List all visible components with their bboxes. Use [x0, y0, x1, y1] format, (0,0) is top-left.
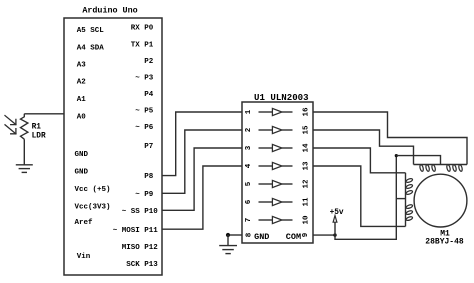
svg-text:28BYJ-48: 28BYJ-48 [425, 237, 464, 246]
motor coil B left half loops [419, 164, 424, 171]
svg-text:8: 8 [245, 232, 253, 237]
buffer channel 2 input wire [259, 129, 273, 131]
buffer channel 5 output wire [282, 183, 293, 185]
buffer channel 1 output wire [282, 111, 293, 113]
svg-text:Arduino Uno: Arduino Uno [82, 5, 137, 15]
svg-text:P7: P7 [144, 143, 153, 151]
wire +5v rail to coil B centre tap [396, 156, 440, 165]
buffer triangle 3 [272, 144, 282, 151]
svg-text:RX: RX [131, 25, 141, 33]
junction dot +5v tap [333, 233, 336, 236]
buffer channel 4 output wire [282, 165, 293, 167]
svg-text:R1: R1 [32, 123, 42, 131]
svg-text:3: 3 [245, 145, 253, 150]
motor coil A lower half loops [406, 204, 413, 209]
buffer triangle 1 [272, 108, 282, 115]
board A1 Arduino Uno box [64, 18, 162, 275]
svg-text:6: 6 [245, 199, 253, 204]
svg-text:GND: GND [254, 232, 269, 242]
svg-text:~: ~ [135, 124, 140, 132]
svg-text:~ MOSI: ~ MOSI [113, 227, 140, 235]
svg-text:A4 SDA: A4 SDA [77, 45, 105, 53]
svg-text:5: 5 [245, 181, 253, 186]
svg-text:9: 9 [302, 232, 310, 237]
buffer channel 1 input wire [259, 111, 273, 113]
buffer channel 7 output wire [282, 219, 293, 221]
svg-text:Vcc(3V3): Vcc(3V3) [75, 204, 111, 212]
svg-text:P11: P11 [144, 227, 158, 235]
svg-text:+5v: +5v [330, 209, 344, 217]
svg-text:TX: TX [131, 42, 141, 50]
buffer channel 6 input wire [259, 201, 273, 203]
junction dot at ground wire [226, 233, 230, 237]
buffer triangle 4 [272, 162, 282, 169]
svg-text:COM: COM [286, 232, 301, 242]
buffer channel 3 input wire [259, 147, 273, 149]
svg-text:15: 15 [302, 125, 310, 135]
svg-text:P12: P12 [144, 244, 158, 252]
svg-text:A1: A1 [77, 96, 87, 104]
svg-text:16: 16 [302, 107, 310, 117]
wire ULN pin 14 to motor coil A top end [313, 148, 406, 173]
svg-text:LDR: LDR [32, 133, 46, 141]
svg-text:~: ~ [135, 108, 140, 116]
wire up to +5v arrow [334, 222, 336, 235]
light arrow 2 into R1 [5, 125, 16, 134]
wire +5v rail to coil A centre tap [396, 198, 405, 200]
wire P11 to ULN pin 4 [162, 166, 242, 229]
svg-text:P5: P5 [144, 108, 154, 116]
svg-text:P1: P1 [144, 42, 154, 50]
buffer channel 4 input wire [259, 165, 273, 167]
svg-text:14: 14 [302, 143, 310, 153]
wire R1 to ground [23, 139, 25, 165]
svg-text:11: 11 [302, 197, 310, 207]
svg-text:GND: GND [75, 151, 89, 159]
svg-text:P13: P13 [144, 261, 158, 269]
svg-text:P9: P9 [144, 191, 154, 199]
svg-text:~ SS: ~ SS [122, 208, 141, 216]
svg-text:7: 7 [245, 218, 253, 223]
svg-text:~: ~ [135, 75, 140, 83]
svg-text:P8: P8 [144, 173, 154, 181]
svg-text:P10: P10 [144, 208, 158, 216]
wire ULN COM pin 9 to +5v junction [313, 234, 335, 236]
svg-text:A2: A2 [77, 79, 87, 87]
svg-text:P2: P2 [144, 58, 154, 66]
wire ULN pin 15 to motor coil B left end [313, 130, 414, 165]
wire down to ground symbol [227, 235, 229, 246]
svg-text:P6: P6 [144, 124, 154, 132]
buffer triangle 7 [272, 216, 282, 223]
motor coil B right half loops [446, 164, 451, 171]
buffer triangle 2 [272, 126, 282, 133]
driver U1 ULN2003 box [242, 102, 313, 243]
svg-text:4: 4 [245, 163, 253, 168]
motor winding A spine [405, 173, 407, 227]
svg-text:A3: A3 [77, 62, 87, 70]
svg-text:GND: GND [75, 169, 89, 177]
ground below ULN pin 8 [219, 245, 237, 247]
svg-text:U1 ULN2003: U1 ULN2003 [254, 92, 309, 103]
svg-text:Vin: Vin [77, 253, 91, 261]
buffer triangle 6 [272, 198, 282, 205]
svg-text:P0: P0 [144, 25, 154, 33]
junction dot +5v corner [395, 154, 398, 157]
buffer channel 5 input wire [259, 183, 273, 185]
svg-text:MISO: MISO [122, 244, 141, 252]
buffer channel 6 output wire [282, 201, 293, 203]
+5v arrow head [333, 216, 337, 223]
wire A0 to R1 [24, 113, 64, 115]
svg-text:13: 13 [302, 161, 310, 171]
svg-text:A0: A0 [77, 114, 87, 122]
wire +5v junction to winding centre taps [335, 156, 396, 240]
buffer channel 7 input wire [259, 219, 273, 221]
wire ULN pin 8 to ground [228, 234, 242, 236]
svg-text:P3: P3 [144, 75, 154, 83]
wire ULN pin 13 to motor coil A bottom end [313, 166, 406, 226]
svg-text:2: 2 [245, 127, 253, 132]
svg-text:10: 10 [302, 215, 310, 225]
motor winding B spine [414, 164, 468, 166]
light arrow 1 into R1 [5, 116, 16, 125]
wire ULN pin 16 to motor coil B right end [313, 112, 467, 165]
wire P9 to ULN pin 2 [162, 130, 242, 193]
svg-text:SCK: SCK [126, 261, 140, 269]
buffer triangle 5 [272, 180, 282, 187]
buffer channel 2 output wire [282, 129, 293, 131]
svg-text:~: ~ [135, 191, 140, 199]
resistor R1 LDR zigzag [21, 114, 28, 139]
svg-text:Vcc (+5): Vcc (+5) [75, 186, 111, 194]
ground below R1 [16, 164, 33, 166]
buffer channel 3 output wire [282, 147, 293, 149]
svg-text:P4: P4 [144, 91, 154, 99]
svg-text:12: 12 [302, 179, 310, 189]
svg-text:Aref: Aref [75, 219, 94, 227]
wire P8 to ULN pin 1 [162, 112, 242, 176]
wire P10 to ULN pin 3 [162, 148, 242, 210]
svg-text:1: 1 [245, 109, 253, 114]
motor coil A upper half loops [406, 178, 413, 183]
svg-text:A5 SCL: A5 SCL [77, 27, 105, 35]
motor M1 body circle [414, 174, 467, 227]
